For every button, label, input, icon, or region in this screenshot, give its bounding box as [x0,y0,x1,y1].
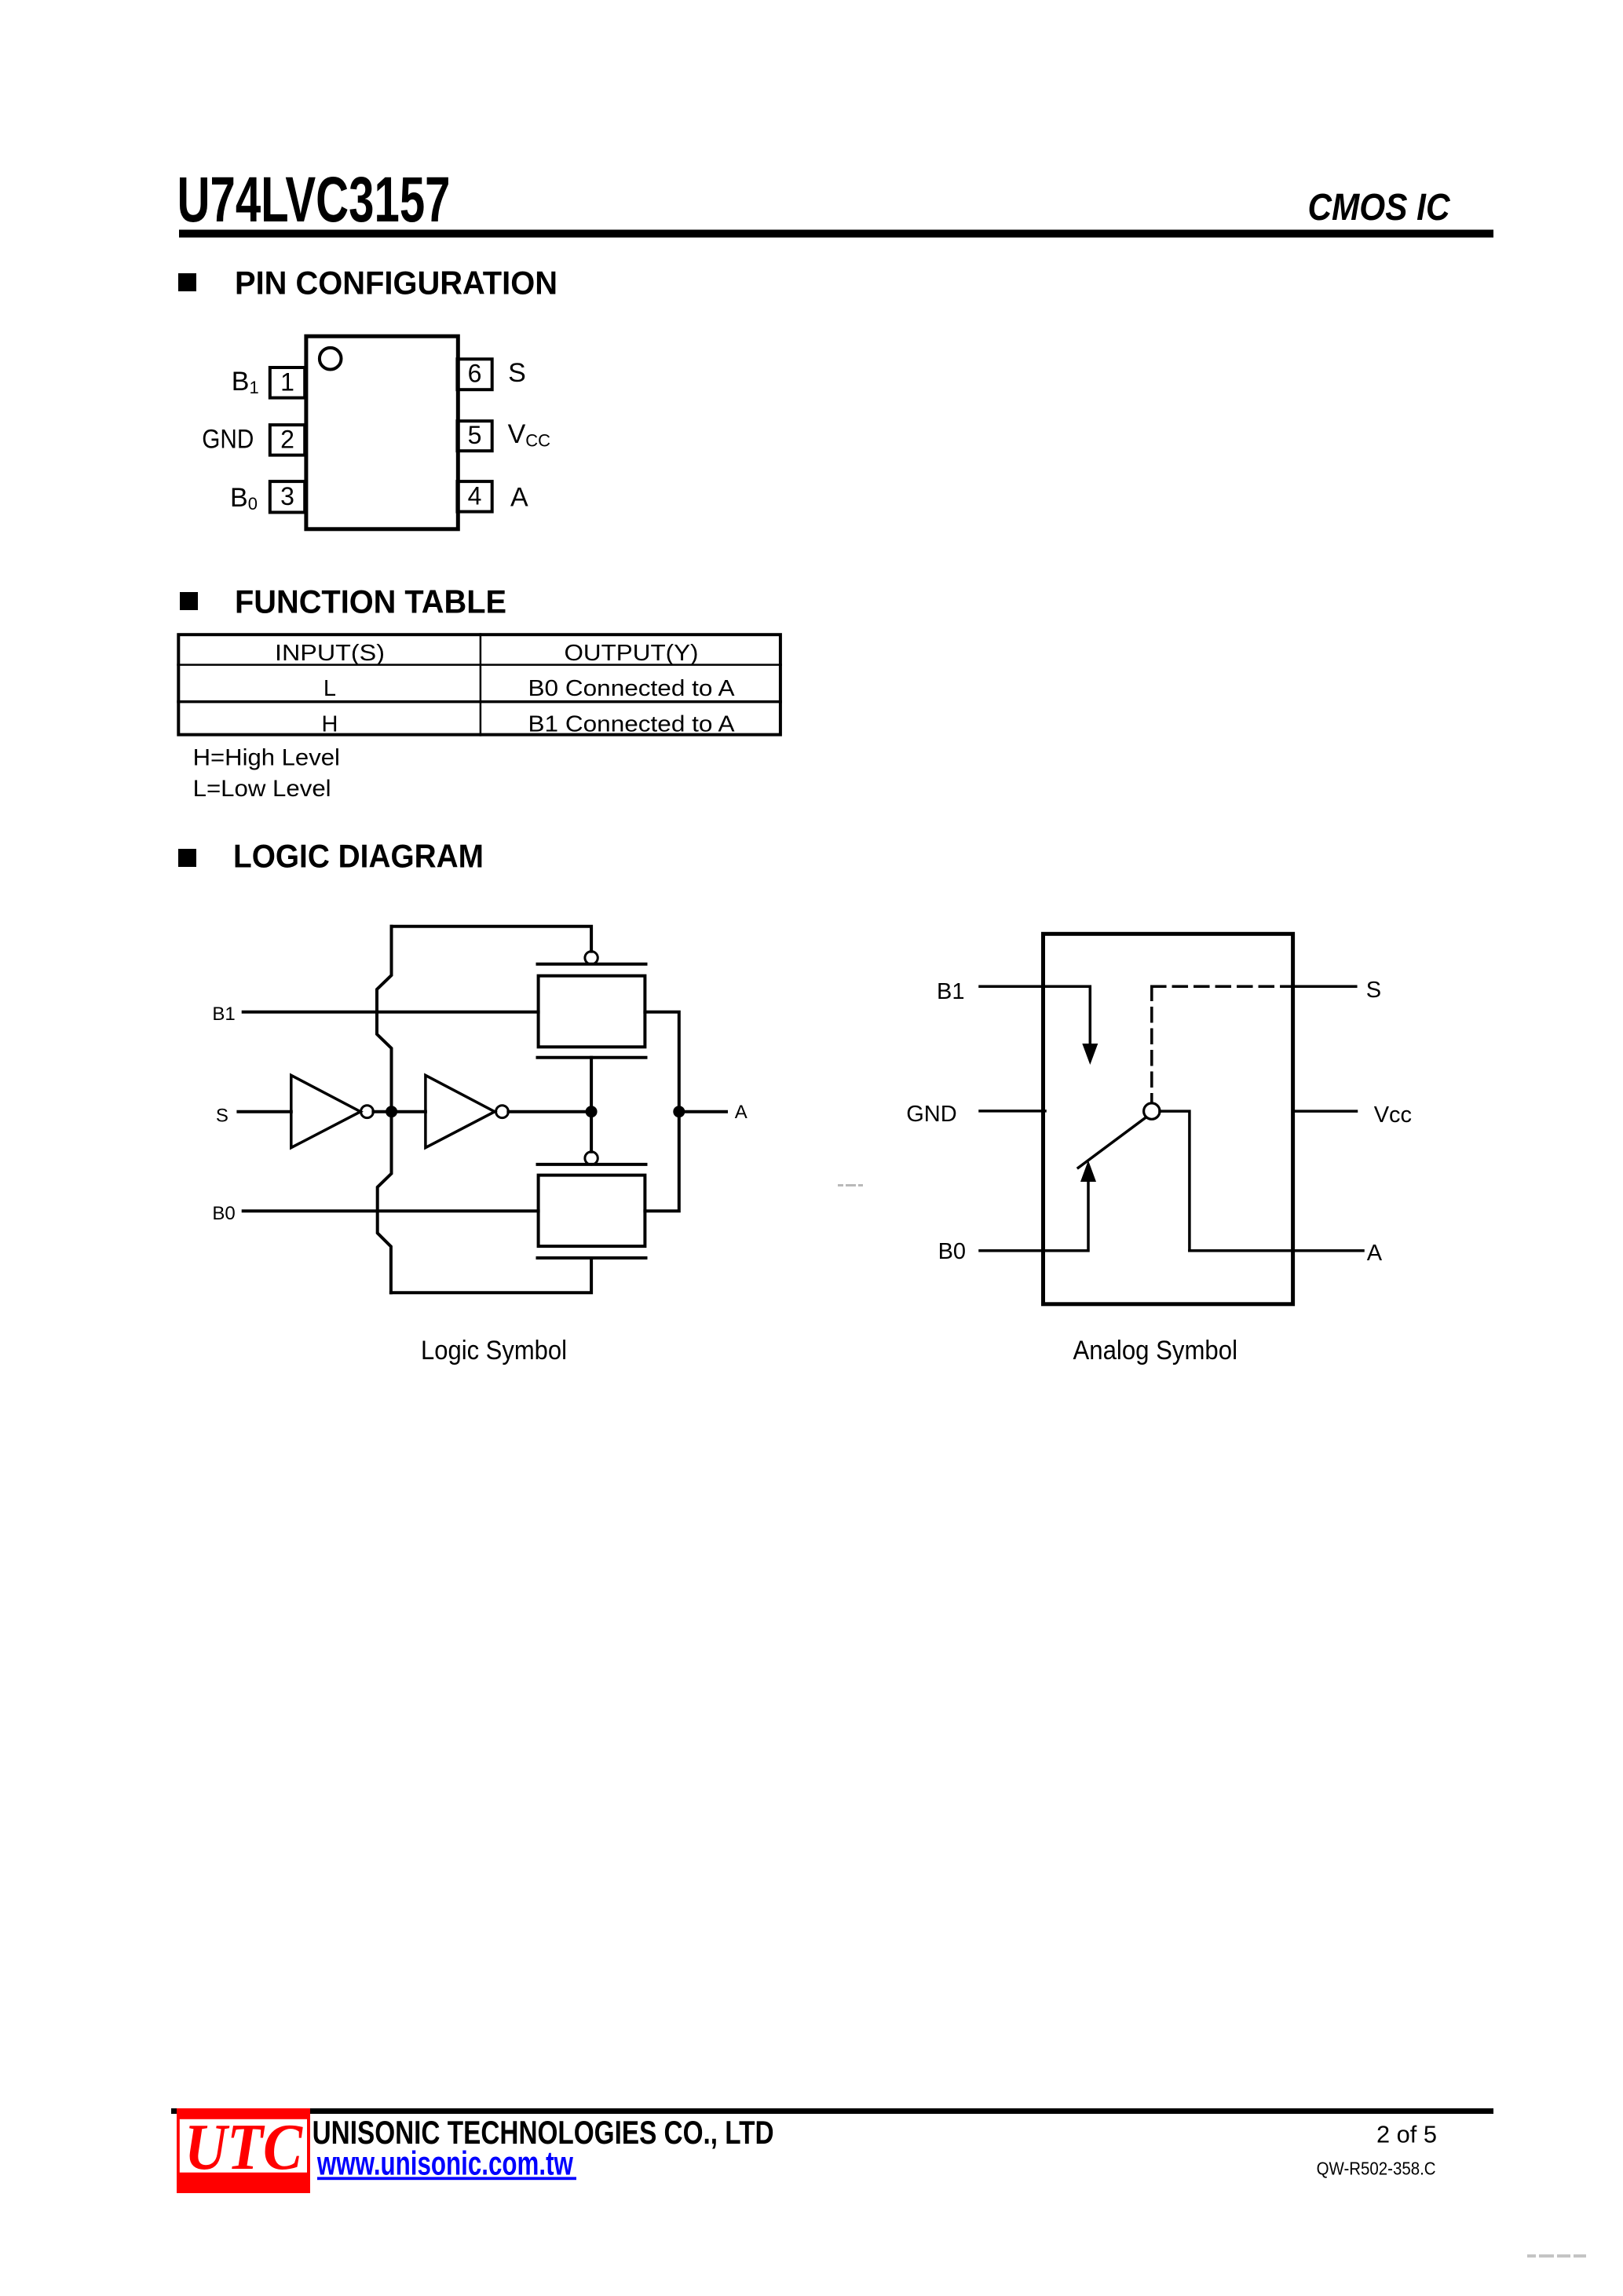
faint watermark bottom right [1527,2254,1586,2258]
wire node A to output pin A [685,1110,726,1113]
wire switch common to Vcc-side drop [1160,1111,1190,1251]
svg-text:H: H [322,712,338,737]
svg-text:A: A [510,483,528,513]
wire inverter U1 output to node SB [373,1110,426,1113]
svg-text:L=Low Level: L=Low Level [193,776,331,802]
svg-text:3: 3 [280,482,294,510]
transmission gate TG2 body box [539,1175,645,1247]
junction node A [673,1106,685,1117]
transmission gate TG2 bottom gate plate [538,1256,646,1260]
faint watermark middle [838,1184,863,1186]
transmission gate TG1 top gate plate [538,963,646,966]
svg-text:GND: GND [906,1102,956,1127]
pin 6 box [457,359,492,389]
svg-text:6: 6 [468,360,482,388]
wire B1 pin into switch throw 1 [980,986,1090,1046]
wire TG1 n-gate to node SN [590,1058,593,1112]
svg-text:A: A [1367,1241,1383,1266]
pin 4 box [457,481,492,512]
pin 2 box [270,425,305,455]
wire inverter U2 output to node SN [508,1110,591,1113]
svg-text:4: 4 [468,481,482,510]
svg-text:2 of 5: 2 of 5 [1376,2121,1437,2148]
svg-text:S: S [508,358,526,388]
svg-text:INPUT(S): INPUT(S) [275,641,385,666]
svg-text:1: 1 [280,368,294,397]
svg-text:LOGIC DIAGRAM: LOGIC DIAGRAM [233,838,484,875]
svg-text:Logic Symbol: Logic Symbol [421,1336,567,1366]
transmission gate TG2 top gate plate [538,1163,646,1166]
inverter U1 bubble [361,1106,374,1118]
switch pivot circle [1144,1103,1160,1119]
svg-text:2: 2 [280,426,294,454]
wire GND pin stub [980,1110,1045,1113]
svg-text:UTC: UTC [185,2111,303,2184]
svg-text:B0: B0 [938,1239,966,1264]
svg-text:B0: B0 [212,1203,235,1224]
pin-1 indicator circle [320,348,342,370]
arrowhead B1 throw [1082,1044,1098,1065]
svg-text:B1: B1 [937,979,964,1004]
svg-text:CMOS IC: CMOS IC [1308,187,1451,229]
svg-text:B1 Connected to A: B1 Connected to A [528,712,736,737]
wire B1 input to transmission gate TG1 [243,1011,539,1014]
dashed control net S vertical to pivot [1150,986,1153,1102]
pin 5 box [457,421,492,451]
transmission gate TG2 p-gate bubble [585,1152,598,1164]
wire A output [1190,1249,1363,1252]
svg-text:B0 Connected to A: B0 Connected to A [528,676,736,701]
inverter U2 triangle [426,1075,495,1147]
svg-text:A: A [735,1102,748,1123]
svg-text:www.unisonic.com.tw: www.unisonic.com.tw [316,2145,573,2183]
wire S pin stub [1293,985,1356,988]
wire B0 pin into switch throw 2 [980,1179,1088,1251]
svg-text:Analog Symbol: Analog Symbol [1073,1336,1238,1366]
transmission gate TG1 bottom gate plate [538,1056,646,1059]
svg-text:PIN CONFIGURATION: PIN CONFIGURATION [235,265,557,302]
IC package body U1 [306,336,458,529]
svg-text:FUNCTION TABLE: FUNCTION TABLE [235,583,506,620]
svg-text:S: S [1366,978,1381,1003]
wire B0 input to transmission gate TG2 [243,1209,539,1212]
wire SB net vertical with hop over B0 [378,1112,392,1293]
wire SB net top to TG1 p-gate [392,927,592,952]
pin 1 box [270,367,305,398]
wire TG1 output to node A [645,1012,678,1112]
wire S input to inverter U1 [238,1110,291,1113]
dashed control net S horizontal [1152,985,1293,988]
wire SB net vertical with hop over B1 [377,927,392,1112]
wire SB net bottom to TG2 n-gate [391,1258,591,1292]
switch lever [1078,1118,1145,1168]
svg-text:QW-R502-358.C: QW-R502-358.C [1317,2159,1436,2179]
junction node SB [386,1106,397,1117]
transmission gate TG1 p-gate bubble [585,952,598,964]
svg-text:L: L [324,676,336,701]
svg-text:OUTPUT(Y): OUTPUT(Y) [565,641,699,666]
svg-text:U74LVC3157: U74LVC3157 [177,164,451,236]
svg-text:S: S [216,1106,228,1127]
inverter U1 triangle [291,1075,360,1147]
transmission gate TG1 body box [539,976,645,1047]
pin 3 box [270,481,305,512]
wire node SN to TG2 p-gate [590,1112,593,1152]
svg-text:H=High Level: H=High Level [193,745,340,771]
svg-text:B1: B1 [212,1004,235,1025]
inverter U2 bubble [496,1106,509,1118]
wire Vcc pin stub [1293,1110,1357,1113]
analog symbol package outline [1044,934,1293,1304]
junction node SN [586,1106,598,1117]
arrowhead B0 throw [1080,1161,1096,1182]
svg-text:5: 5 [468,421,482,449]
svg-text:Vcc: Vcc [1374,1102,1412,1128]
wire TG2 output to node A [645,1112,678,1212]
svg-text:GND: GND [202,424,254,454]
